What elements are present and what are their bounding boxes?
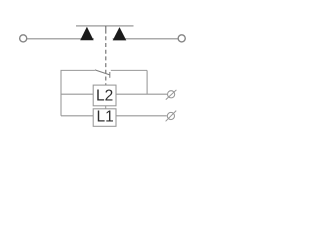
svg-text:L2: L2 xyxy=(96,87,113,104)
svg-text:L1: L1 xyxy=(96,109,113,126)
